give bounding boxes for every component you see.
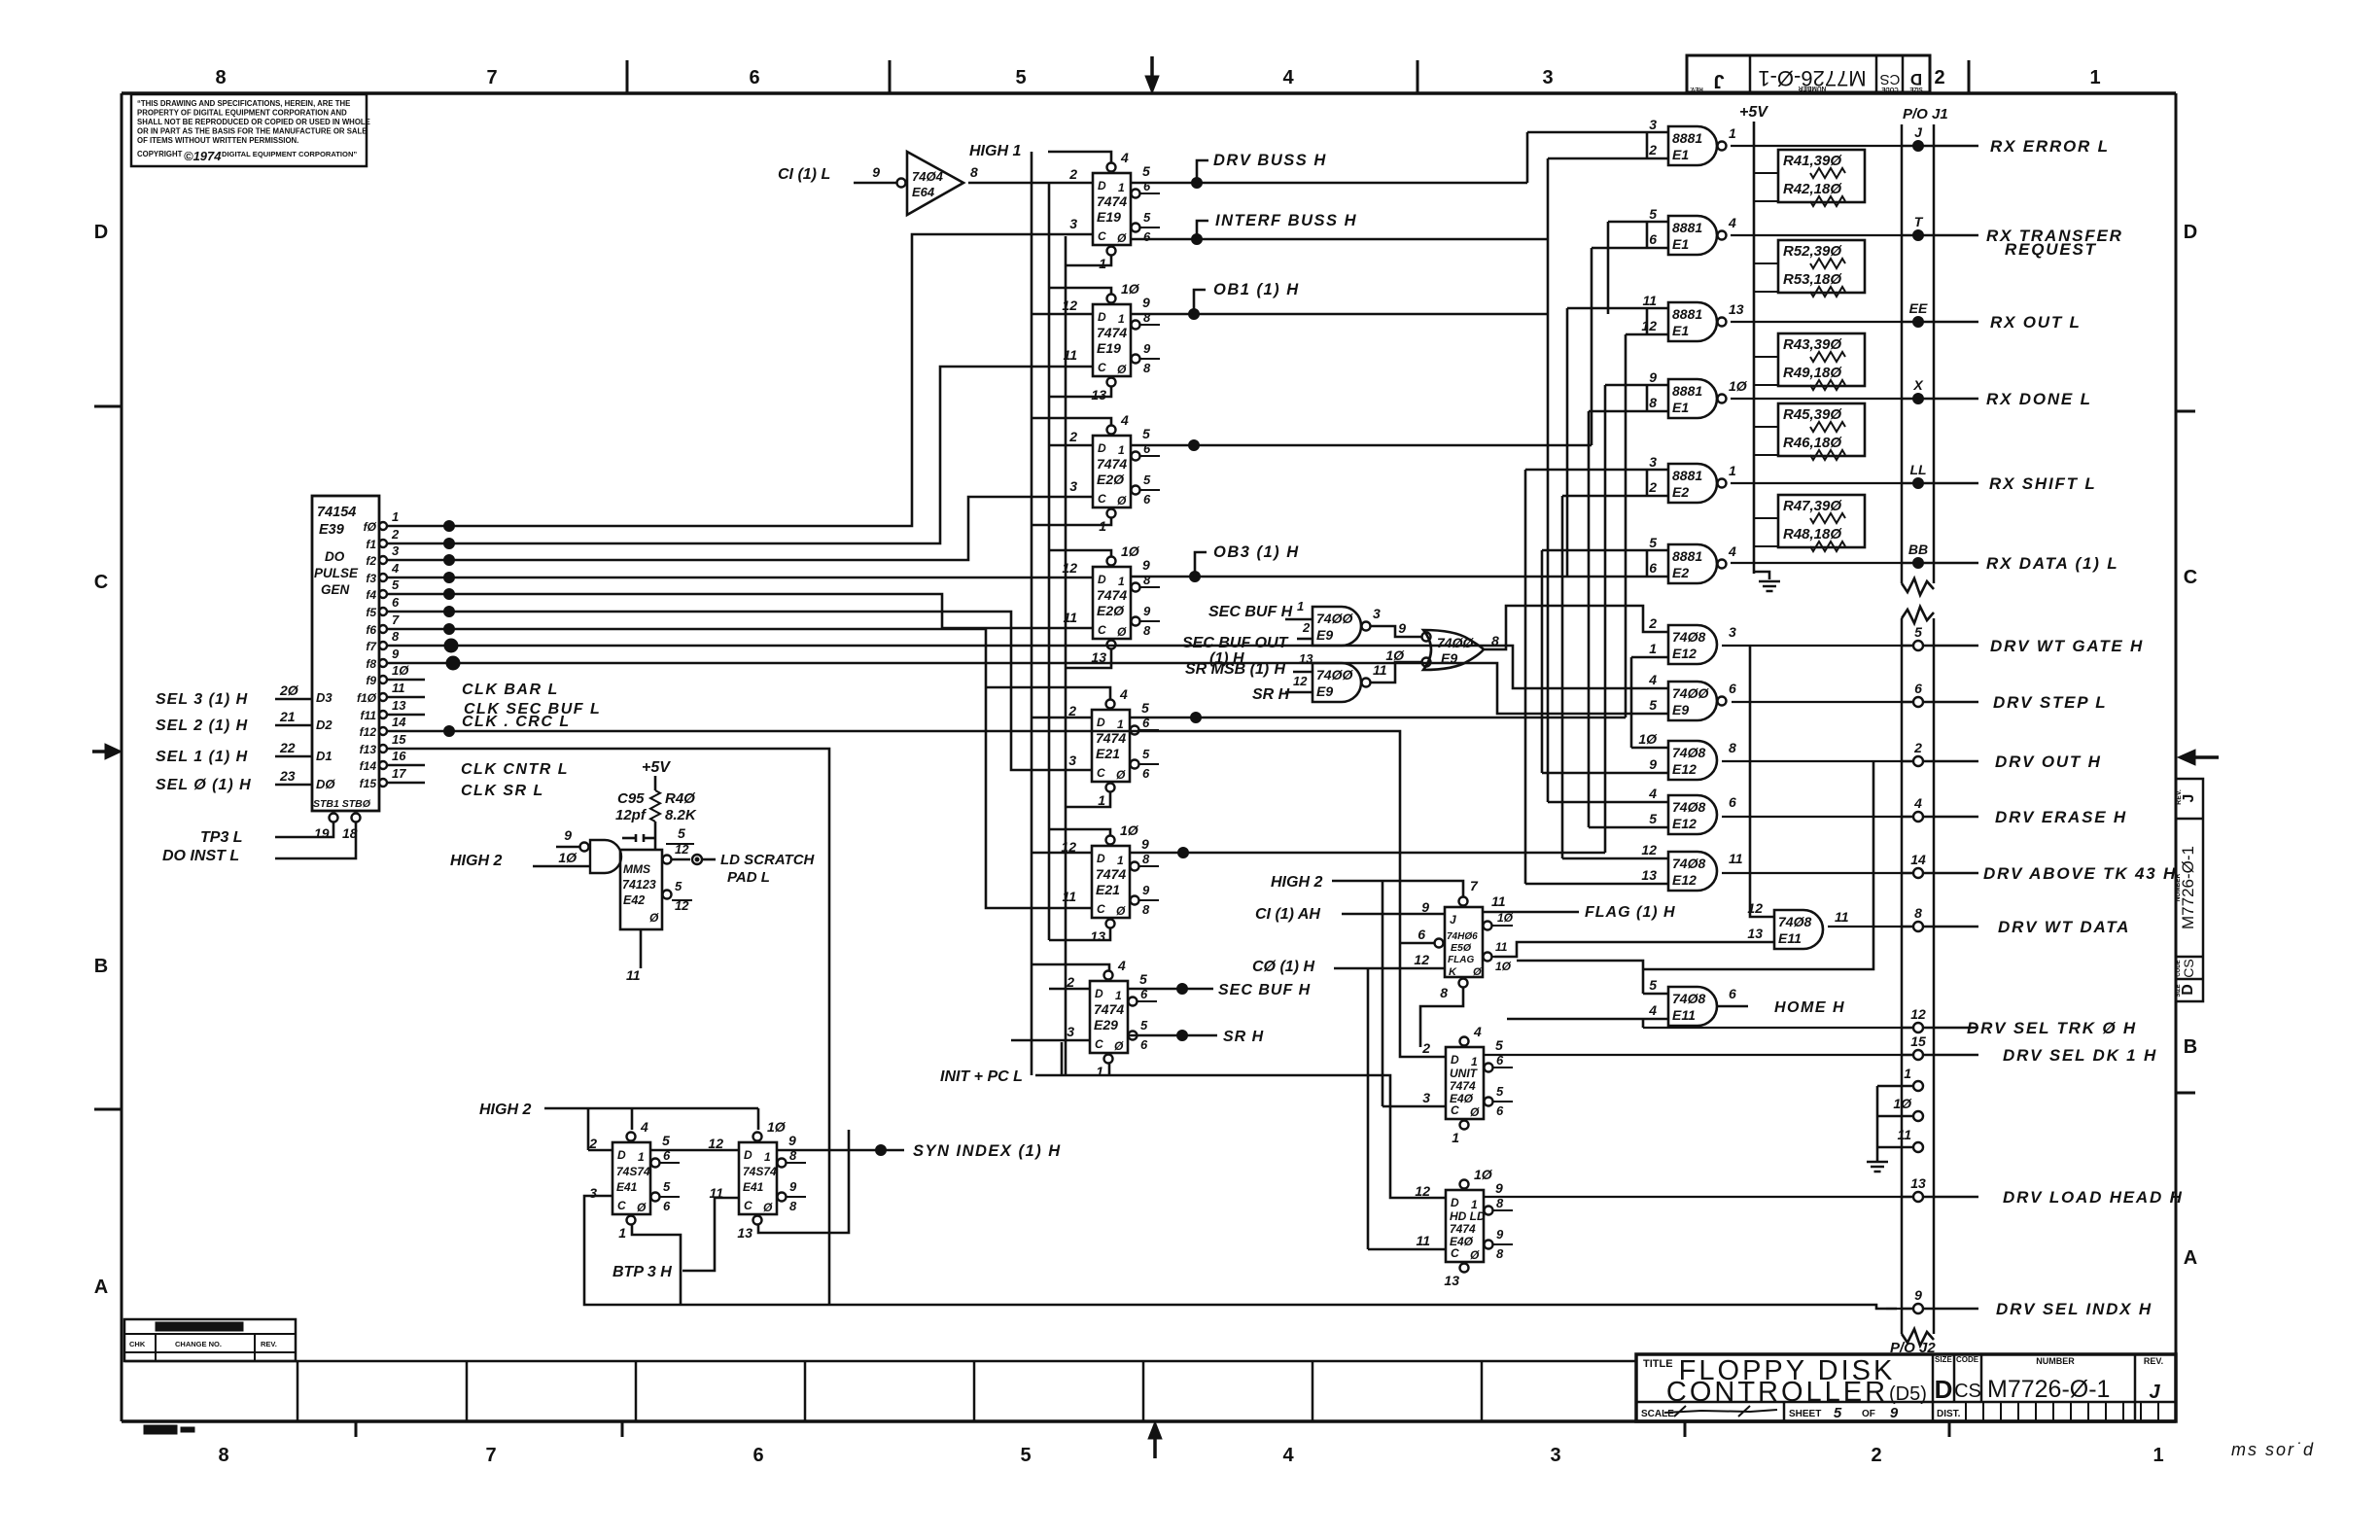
svg-text:R48,18Ø: R48,18Ø (1783, 526, 1842, 542)
svg-text:9: 9 (1141, 836, 1149, 852)
svg-text:E1: E1 (1672, 323, 1689, 338)
svg-text:A: A (2184, 1247, 2197, 1269)
svg-text:J: J (2149, 1382, 2160, 1403)
svg-text:INTERF BUSS H: INTERF BUSS H (1215, 212, 1357, 229)
svg-text:11: 11 (1642, 293, 1657, 308)
svg-text:REQUEST: REQUEST (2005, 240, 2097, 259)
svg-text:(D5): (D5) (1889, 1383, 1927, 1405)
svg-text:E19: E19 (1097, 209, 1121, 225)
svg-text:DRV LOAD HEAD H: DRV LOAD HEAD H (2003, 1188, 2184, 1207)
svg-text:4: 4 (1648, 672, 1657, 687)
svg-text:CODE: CODE (1956, 1355, 1979, 1364)
svg-text:1: 1 (1649, 641, 1657, 656)
svg-text:4: 4 (391, 561, 400, 576)
svg-text:C: C (1097, 902, 1105, 916)
svg-text:R41,39Ø: R41,39Ø (1783, 153, 1842, 169)
svg-text:CLK BAR L: CLK BAR L (462, 682, 559, 698)
svg-text:SEL 1 (1) H: SEL 1 (1) H (156, 749, 248, 765)
svg-text:E39: E39 (319, 522, 344, 538)
svg-text:LD SCRATCH: LD SCRATCH (720, 852, 816, 868)
svg-text:8881: 8881 (1672, 306, 1702, 322)
svg-text:14: 14 (1910, 852, 1926, 867)
svg-text:3: 3 (1729, 624, 1736, 640)
svg-text:SEC BUF H: SEC BUF H (1208, 604, 1293, 620)
svg-text:15: 15 (1910, 1033, 1926, 1049)
svg-text:5: 5 (1141, 700, 1149, 716)
svg-text:CLK . CRC L: CLK . CRC L (462, 714, 571, 730)
svg-text:E9: E9 (1316, 683, 1333, 699)
svg-text:9: 9 (1495, 1180, 1503, 1196)
svg-text:7: 7 (1470, 878, 1479, 893)
svg-text:7474: 7474 (1097, 456, 1127, 472)
svg-text:HIGH 2: HIGH 2 (479, 1102, 531, 1118)
svg-text:f5: f5 (366, 606, 376, 619)
svg-text:E12: E12 (1672, 761, 1697, 777)
svg-text:5: 5 (1649, 811, 1657, 826)
svg-text:E12: E12 (1672, 872, 1697, 888)
svg-text:74ØØ: 74ØØ (1316, 611, 1353, 626)
svg-text:7: 7 (486, 67, 497, 88)
svg-text:SHALL NOT BE REPRODUCED OR COP: SHALL NOT BE REPRODUCED OR COPIED OR USE… (137, 118, 370, 126)
svg-text:8: 8 (1649, 395, 1657, 410)
svg-text:SHEET: SHEET (1789, 1409, 1821, 1419)
svg-text:DRV BUSS H: DRV BUSS H (1213, 152, 1327, 169)
svg-text:E21: E21 (1096, 746, 1120, 761)
svg-text:f8: f8 (366, 657, 376, 671)
svg-text:11: 11 (1835, 909, 1849, 925)
svg-text:2: 2 (1302, 620, 1311, 635)
svg-text:BB: BB (1908, 542, 1928, 557)
svg-text:D: D (1097, 716, 1105, 729)
svg-text:74Ø8: 74Ø8 (1672, 799, 1705, 815)
svg-text:R53,18Ø: R53,18Ø (1783, 271, 1842, 288)
svg-text:COPYRIGHT: COPYRIGHT (137, 150, 183, 158)
svg-text:HIGH 2: HIGH 2 (1271, 874, 1322, 891)
svg-text:D: D (1097, 852, 1105, 865)
svg-text:7474: 7474 (1094, 1001, 1124, 1017)
svg-text:5: 5 (1142, 426, 1150, 441)
svg-text:4: 4 (1648, 786, 1657, 801)
svg-text:C: C (744, 1199, 752, 1212)
svg-text:4: 4 (640, 1119, 648, 1135)
svg-text:9: 9 (1398, 620, 1406, 636)
svg-text:f1Ø: f1Ø (357, 691, 377, 705)
svg-text:11: 11 (392, 681, 405, 695)
svg-text:7474: 7474 (1097, 587, 1127, 603)
svg-text:OF: OF (1862, 1409, 1875, 1419)
svg-text:1: 1 (1729, 463, 1736, 478)
svg-text:8: 8 (1143, 361, 1151, 375)
svg-text:CI (1) AH: CI (1) AH (1255, 906, 1320, 923)
svg-text:1: 1 (1096, 1064, 1103, 1079)
svg-text:1: 1 (1297, 599, 1304, 613)
svg-text:E2Ø: E2Ø (1097, 472, 1125, 487)
svg-text:9: 9 (1142, 295, 1150, 310)
svg-text:6: 6 (392, 595, 400, 610)
svg-text:4: 4 (1913, 795, 1922, 811)
svg-text:6: 6 (1649, 231, 1657, 247)
svg-text:74HØ6: 74HØ6 (1447, 931, 1478, 942)
svg-text:6: 6 (1417, 927, 1425, 942)
svg-text:12: 12 (1641, 842, 1657, 857)
svg-text:SEL 2 (1) H: SEL 2 (1) H (156, 717, 248, 734)
svg-text:CLK CNTR L: CLK CNTR L (461, 761, 569, 778)
svg-text:6: 6 (1496, 1103, 1504, 1118)
svg-text:74Ø8: 74Ø8 (1672, 991, 1705, 1006)
svg-text:RX ERROR L: RX ERROR L (1990, 137, 2110, 156)
svg-text:D: D (1098, 179, 1106, 192)
svg-text:DRV SEL TRK Ø H: DRV SEL TRK Ø H (1967, 1019, 2137, 1037)
svg-text:DO INST L: DO INST L (162, 848, 239, 864)
svg-text:DIST.: DIST. (1937, 1409, 1961, 1419)
svg-text:T: T (1914, 214, 1924, 229)
svg-text:12: 12 (1415, 1183, 1430, 1199)
svg-text:74154: 74154 (317, 505, 356, 520)
svg-text:E64: E64 (912, 185, 935, 199)
svg-text:BTP 3 H: BTP 3 H (612, 1264, 672, 1280)
svg-text:5: 5 (1143, 210, 1151, 225)
svg-text:1: 1 (1098, 792, 1105, 808)
svg-text:E42: E42 (623, 893, 645, 907)
svg-text:E12: E12 (1672, 816, 1697, 831)
svg-text:11: 11 (1491, 893, 1506, 909)
svg-text:7: 7 (485, 1445, 496, 1466)
svg-text:E41: E41 (616, 1180, 638, 1194)
svg-text:9: 9 (1143, 604, 1151, 618)
svg-text:1Ø: 1Ø (1121, 281, 1140, 297)
svg-text:f11: f11 (361, 709, 377, 722)
svg-text:f2: f2 (366, 554, 376, 568)
svg-text:E1: E1 (1672, 400, 1689, 415)
svg-text:Ø: Ø (1117, 625, 1127, 639)
svg-text:13: 13 (392, 698, 406, 713)
svg-text:M7726-Ø-1: M7726-Ø-1 (2179, 846, 2197, 929)
svg-text:13: 13 (1091, 387, 1106, 402)
svg-text:R4Ø: R4Ø (665, 790, 696, 807)
svg-text:Ø: Ø (1473, 966, 1482, 978)
svg-text:E2Ø: E2Ø (1097, 603, 1125, 618)
svg-text:Ø: Ø (1116, 768, 1126, 782)
svg-text:Ø: Ø (649, 911, 659, 925)
svg-text:“THIS DRAWING AND SPECIFICATIO: “THIS DRAWING AND SPECIFICATIONS, HEREIN… (137, 99, 350, 108)
svg-text:5: 5 (1140, 1018, 1148, 1032)
svg-text:6: 6 (1729, 681, 1736, 696)
svg-text:ms sor˙d: ms sor˙d (2231, 1440, 2315, 1459)
svg-text:C: C (2184, 567, 2197, 588)
svg-text:2: 2 (1068, 429, 1077, 444)
svg-text:C: C (1098, 492, 1106, 506)
svg-text:9: 9 (1142, 557, 1150, 573)
svg-text:6: 6 (752, 1445, 763, 1466)
svg-text:1Ø: 1Ø (1121, 543, 1140, 559)
svg-text:1: 1 (1099, 256, 1106, 271)
svg-text:1: 1 (1117, 717, 1124, 731)
svg-text:CØ (1) H: CØ (1) H (1252, 959, 1314, 975)
svg-text:8: 8 (218, 1445, 228, 1466)
svg-text:11: 11 (1062, 889, 1076, 904)
svg-text:DRV WT DATA: DRV WT DATA (1998, 918, 2130, 936)
svg-text:3: 3 (1069, 478, 1077, 494)
svg-text:C95: C95 (617, 790, 645, 807)
svg-text:6: 6 (1142, 766, 1150, 781)
svg-text:D: D (1098, 573, 1106, 586)
svg-text:3: 3 (1550, 1445, 1560, 1466)
svg-text:5: 5 (1142, 163, 1150, 179)
svg-text:3: 3 (1373, 606, 1381, 621)
svg-text:6: 6 (1729, 986, 1736, 1001)
svg-text:LL: LL (1909, 462, 1926, 477)
svg-text:5: 5 (1649, 206, 1657, 222)
svg-text:23: 23 (279, 768, 296, 784)
svg-text:74ØØ: 74ØØ (1316, 667, 1353, 682)
svg-text:NUMBER: NUMBER (1798, 85, 1826, 91)
svg-text:3: 3 (1542, 67, 1553, 88)
svg-text:E2: E2 (1672, 484, 1689, 500)
svg-text:11: 11 (1897, 1127, 1911, 1142)
svg-text:OF ITEMS WITHOUT WRITTEN PERMI: OF ITEMS WITHOUT WRITTEN PERMISSION. (137, 136, 298, 145)
svg-text:8881: 8881 (1672, 220, 1702, 235)
svg-text:C: C (1451, 1103, 1459, 1117)
svg-text:OB3 (1) H: OB3 (1) H (1213, 543, 1300, 561)
svg-text:1: 1 (1904, 1066, 1911, 1081)
svg-text:Ø: Ø (1117, 231, 1127, 245)
svg-text:B: B (94, 956, 108, 977)
svg-text:E9: E9 (1441, 650, 1457, 666)
svg-text:1: 1 (1117, 854, 1124, 867)
svg-text:74ØØ: 74ØØ (1437, 635, 1474, 650)
svg-text:f14: f14 (360, 759, 377, 773)
svg-text:2Ø: 2Ø (279, 682, 299, 698)
svg-text:6: 6 (1143, 492, 1151, 507)
svg-text:E19: E19 (1097, 340, 1121, 356)
svg-text:f4: f4 (366, 588, 376, 602)
svg-text:STB1 STBØ: STB1 STBØ (313, 798, 371, 810)
svg-text:12: 12 (1414, 952, 1429, 967)
svg-text:17: 17 (392, 766, 406, 781)
svg-text:1Ø: 1Ø (767, 1119, 787, 1135)
svg-text:3: 3 (1068, 752, 1076, 768)
svg-text:11: 11 (1373, 662, 1387, 678)
svg-text:4: 4 (1282, 67, 1294, 88)
svg-text:E29: E29 (1094, 1017, 1118, 1032)
svg-text:P/O J2: P/O J2 (1890, 1340, 1936, 1356)
svg-text:E41: E41 (743, 1180, 764, 1194)
svg-text:1Ø: 1Ø (558, 850, 577, 865)
svg-text:C: C (1451, 1246, 1459, 1260)
svg-text:1: 1 (2089, 67, 2100, 88)
svg-text:2: 2 (1648, 142, 1657, 157)
svg-text:4: 4 (1282, 1445, 1294, 1466)
svg-text:UNIT: UNIT (1450, 1067, 1479, 1080)
svg-text:8: 8 (1491, 633, 1499, 648)
svg-text:6: 6 (1649, 560, 1657, 576)
svg-text:CONTROLLER: CONTROLLER (1666, 1377, 1888, 1408)
svg-text:D1: D1 (316, 749, 332, 763)
svg-text:HOME H: HOME H (1774, 999, 1845, 1016)
svg-text:E4Ø: E4Ø (1450, 1092, 1474, 1105)
svg-text:PROPERTY OF DIGITAL EQUIPMENT: PROPERTY OF DIGITAL EQUIPMENT CORPORATIO… (137, 109, 347, 118)
svg-text:4: 4 (1473, 1024, 1482, 1039)
svg-text:5: 5 (1649, 535, 1657, 550)
svg-text:f1: f1 (366, 538, 376, 551)
svg-text:©1974: ©1974 (184, 149, 222, 163)
svg-text:2: 2 (1648, 479, 1657, 495)
svg-text:RX DATA (1) L: RX DATA (1) L (1986, 554, 2118, 573)
svg-text:74S74: 74S74 (616, 1165, 650, 1178)
svg-text:E12: E12 (1672, 646, 1697, 661)
svg-text:1: 1 (618, 1225, 626, 1241)
svg-text:6: 6 (749, 67, 759, 88)
svg-text:R46,18Ø: R46,18Ø (1783, 435, 1842, 451)
svg-text:5: 5 (1139, 971, 1147, 987)
svg-text:CS: CS (1880, 71, 1901, 87)
svg-text:8: 8 (1496, 1246, 1504, 1261)
svg-text:1: 1 (1115, 989, 1122, 1002)
svg-text:13: 13 (1641, 867, 1657, 883)
svg-text:SR H: SR H (1252, 686, 1290, 703)
svg-text:5: 5 (1020, 1445, 1031, 1466)
svg-text:6: 6 (663, 1199, 671, 1213)
svg-text:11: 11 (1495, 940, 1508, 954)
svg-text:D: D (1935, 1375, 1953, 1404)
svg-text:9: 9 (1421, 899, 1429, 915)
svg-text:FLAG: FLAG (1448, 955, 1474, 965)
svg-text:2: 2 (1066, 974, 1074, 990)
svg-text:13: 13 (1444, 1273, 1459, 1288)
svg-text:8: 8 (392, 629, 400, 644)
svg-text:RX OUT L: RX OUT L (1990, 313, 2082, 332)
svg-text:2: 2 (588, 1136, 597, 1151)
svg-text:E1: E1 (1672, 236, 1689, 252)
svg-text:EE: EE (1909, 300, 1928, 316)
svg-text:1: 1 (1118, 312, 1125, 326)
svg-text:HIGH 1: HIGH 1 (969, 143, 1021, 159)
svg-text:DRV OUT H: DRV OUT H (1995, 752, 2102, 771)
svg-text:E9: E9 (1316, 627, 1333, 643)
svg-text:74123: 74123 (622, 878, 656, 892)
svg-text:4: 4 (1119, 686, 1128, 702)
svg-text:21: 21 (279, 709, 296, 724)
svg-text:74S74: 74S74 (743, 1165, 777, 1178)
svg-text:D: D (1098, 441, 1106, 455)
svg-text:E11: E11 (1672, 1007, 1696, 1023)
svg-text:f6: f6 (366, 623, 376, 637)
svg-text:9: 9 (1142, 883, 1150, 897)
svg-text:1Ø: 1Ø (1729, 378, 1748, 394)
svg-text:6: 6 (1143, 229, 1151, 244)
svg-text:12: 12 (708, 1136, 723, 1151)
svg-text:D: D (94, 222, 108, 243)
svg-text:R52,39Ø: R52,39Ø (1783, 243, 1842, 260)
svg-text:D: D (1451, 1053, 1459, 1067)
svg-text:CS: CS (1954, 1381, 1981, 1402)
svg-text:E11: E11 (1778, 930, 1802, 946)
svg-text:9: 9 (1649, 369, 1657, 385)
svg-text:1: 1 (764, 1150, 771, 1164)
svg-text:C: C (1095, 1037, 1103, 1051)
svg-text:9: 9 (392, 647, 400, 661)
svg-text:1Ø: 1Ø (1474, 1167, 1493, 1182)
svg-text:E21: E21 (1096, 882, 1120, 897)
svg-text:4: 4 (1648, 1002, 1657, 1018)
svg-text:M7726-Ø-1: M7726-Ø-1 (1987, 1376, 2110, 1403)
svg-text:8: 8 (1143, 573, 1151, 587)
svg-text:8881: 8881 (1672, 383, 1702, 399)
svg-text:7474: 7474 (1450, 1079, 1476, 1093)
svg-text:SIZE: SIZE (1909, 86, 1922, 91)
svg-text:6: 6 (1496, 1053, 1504, 1067)
svg-text:E9: E9 (1672, 702, 1689, 717)
svg-text:9: 9 (1649, 756, 1657, 772)
svg-text:C: C (1098, 229, 1106, 243)
svg-text:SYN INDEX (1) H: SYN INDEX (1) H (913, 1142, 1062, 1160)
svg-text:E4Ø: E4Ø (1450, 1235, 1474, 1248)
svg-text:D: D (617, 1148, 626, 1162)
svg-text:7: 7 (392, 612, 400, 627)
svg-text:f7: f7 (366, 640, 377, 653)
svg-text:1: 1 (1729, 125, 1736, 141)
svg-text:8: 8 (1143, 623, 1151, 638)
svg-text:DRV WT GATE H: DRV WT GATE H (1990, 637, 2144, 655)
svg-text:9: 9 (1890, 1405, 1899, 1421)
svg-text:1Ø: 1Ø (1385, 647, 1405, 663)
svg-text:3: 3 (1649, 117, 1657, 132)
svg-text:Ø: Ø (1117, 363, 1127, 376)
svg-text:4: 4 (1728, 215, 1736, 230)
svg-text:11: 11 (1416, 1233, 1430, 1248)
svg-text:D: D (744, 1148, 752, 1162)
svg-text:SEC BUF H: SEC BUF H (1218, 982, 1311, 998)
svg-text:74Ø8: 74Ø8 (1672, 745, 1705, 760)
svg-text:3: 3 (1649, 454, 1657, 470)
svg-text:C: C (1098, 361, 1106, 374)
svg-text:C: C (94, 572, 108, 593)
svg-text:X: X (1912, 377, 1924, 393)
svg-text:9: 9 (872, 164, 880, 180)
svg-text:Ø: Ø (1470, 1105, 1480, 1119)
svg-text:A: A (94, 1277, 108, 1298)
svg-text:8: 8 (215, 67, 226, 88)
svg-text:Ø: Ø (1116, 904, 1126, 918)
svg-text:22: 22 (279, 740, 296, 755)
svg-text:74Ø4: 74Ø4 (912, 169, 944, 184)
svg-text:2: 2 (1871, 1445, 1881, 1466)
svg-text:9: 9 (789, 1179, 797, 1194)
svg-text:13: 13 (1747, 926, 1763, 941)
svg-text:Ø: Ø (637, 1201, 647, 1214)
svg-text:C: C (1097, 766, 1105, 780)
svg-text:9: 9 (788, 1133, 796, 1148)
svg-text:B: B (2184, 1036, 2197, 1058)
svg-text:D: D (2184, 222, 2197, 243)
svg-text:C: C (1098, 623, 1106, 637)
svg-text:GEN: GEN (321, 582, 350, 597)
svg-text:2: 2 (391, 527, 400, 542)
svg-text:5: 5 (678, 825, 685, 841)
svg-text:SIZE: SIZE (1935, 1355, 1952, 1364)
svg-text:1: 1 (1118, 575, 1125, 588)
svg-text:16: 16 (392, 749, 406, 763)
svg-text:11: 11 (1729, 851, 1743, 866)
svg-text:DIGITAL EQUIPMENT CORPORATION”: DIGITAL EQUIPMENT CORPORATION” (222, 150, 357, 158)
svg-text:8: 8 (1440, 985, 1448, 1000)
svg-text:CI (1) L: CI (1) L (778, 166, 830, 183)
svg-text:13: 13 (737, 1225, 752, 1241)
svg-text:+5V: +5V (1739, 104, 1768, 121)
svg-text:CS: CS (2181, 959, 2196, 977)
svg-text:8: 8 (1729, 740, 1736, 755)
svg-text:8: 8 (1143, 310, 1151, 325)
